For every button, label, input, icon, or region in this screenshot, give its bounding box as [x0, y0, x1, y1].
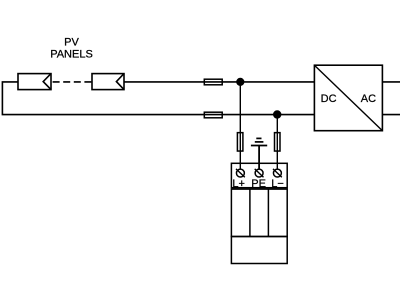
svg-text:PV: PV: [64, 37, 79, 49]
svg-text:L+: L+: [232, 178, 245, 190]
svg-text:PANELS: PANELS: [50, 49, 93, 61]
svg-text:L−: L−: [271, 178, 284, 190]
svg-text:PE: PE: [251, 178, 266, 190]
svg-text:AC: AC: [361, 93, 376, 105]
svg-text:DC: DC: [321, 93, 337, 105]
